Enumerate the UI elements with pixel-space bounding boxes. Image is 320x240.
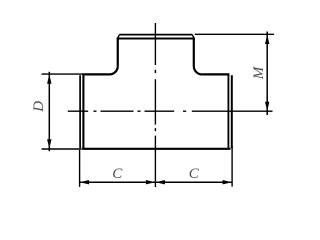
dimension C extension line left (79, 150, 81, 187)
svg-text:C: C (189, 166, 200, 182)
run top face right segment (202, 73, 229, 75)
dimension D arrow down (47, 139, 51, 149)
dimension D line (48, 72, 50, 151)
dimension M line (266, 32, 268, 116)
dimension M arrow up (265, 35, 269, 45)
run right bevel shoulder line (227, 74, 229, 150)
run left end face line (79, 75, 81, 148)
run right end face line (231, 75, 233, 148)
dimension M arrow down (265, 102, 269, 112)
dimension C left arrow (80, 180, 90, 184)
svg-text:C: C (112, 166, 123, 182)
svg-text:M: M (251, 65, 267, 80)
run top face left segment (82, 73, 109, 75)
dimension M extension line top (195, 33, 274, 35)
svg-text:D: D (31, 101, 47, 113)
branch right edge (193, 38, 195, 66)
dimension C center arrow pointing left (155, 180, 165, 184)
branch left fillet (110, 66, 118, 74)
branch left top chamfer (117, 35, 119, 39)
dimension C center arrow pointing right (146, 180, 156, 184)
branch right fillet (194, 66, 202, 74)
dimension C line (80, 181, 233, 183)
dimension C right arrow (223, 180, 233, 184)
dimension D arrow up (47, 74, 51, 84)
dimension C extension line right (231, 146, 233, 187)
run bottom face (82, 148, 231, 150)
centerline vertical (branch axis) (154, 23, 156, 187)
branch right top chamfer (192, 35, 194, 39)
centerline horizontal (run axis) (68, 110, 274, 112)
run left bevel shoulder line (82, 74, 84, 150)
branch bevel shoulder line (117, 38, 195, 40)
dimension D extension line bottom (42, 148, 81, 150)
branch left edge (117, 38, 119, 66)
dimension D extension line top (42, 73, 84, 75)
branch end face (top line) (119, 34, 192, 36)
